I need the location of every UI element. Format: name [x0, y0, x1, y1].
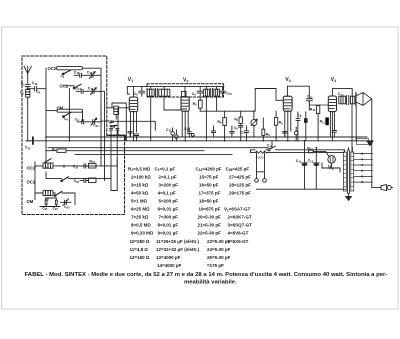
output transformer secondary	[350, 96, 354, 104]
svg-text:12=32+32 μF (elettr.): 12=32+32 μF (elettr.)	[156, 247, 200, 252]
svg-text:17=375 pF: 17=375 pF	[199, 191, 221, 196]
capacitor C22	[55, 198, 57, 207]
svg-text:19=875 pF: 19=875 pF	[199, 207, 221, 212]
wire transformer top	[345, 148, 353, 152]
svg-text:C14=4200 pF: C14=4200 pF	[196, 166, 222, 172]
svg-text:=175 pF: =175 pF	[207, 263, 224, 268]
svg-text:R6: R6	[217, 120, 222, 125]
svg-text:V1=6SA7-GT: V1=6SA7-GT	[224, 207, 251, 213]
capacitor C10	[220, 87, 226, 96]
electrolytic C11	[304, 141, 306, 189]
capacitor C6	[187, 128, 191, 137]
resistor R12	[309, 150, 314, 153]
svg-text:meabilità variabile.: meabilità variabile.	[184, 279, 237, 285]
svg-text:C11: C11	[296, 159, 302, 164]
svg-text:C22: C22	[52, 206, 58, 211]
svg-text:13=4000 pF: 13=4000 pF	[156, 255, 181, 260]
svg-text:OC2: OC2	[27, 165, 36, 170]
svg-text:V3: V3	[285, 77, 290, 83]
svg-text:20=5-30 pF: 20=5-30 pF	[198, 215, 222, 220]
svg-text:12=160 Ω: 12=160 Ω	[130, 255, 150, 260]
resistor R6	[223, 118, 227, 126]
wire detector line	[200, 110, 254, 112]
svg-text:R1=0,5 MΩ: R1=0,5 MΩ	[128, 166, 151, 172]
svg-text:C10: C10	[226, 91, 232, 96]
power transformer core	[348, 150, 350, 194]
switch mains	[268, 149, 270, 151]
tube V1	[129, 97, 137, 112]
tube V2	[181, 97, 189, 111]
svg-text:L6: L6	[64, 117, 68, 122]
taps with arrows	[354, 154, 373, 183]
svg-text:2=6SK7-GT: 2=6SK7-GT	[228, 215, 252, 220]
svg-text:R5: R5	[193, 102, 198, 107]
bus AVC	[48, 147, 268, 149]
svg-text:9=0,01 μF: 9=0,01 μF	[158, 231, 179, 236]
wire IF1 stubs	[151, 87, 181, 141]
coil L1	[26, 90, 30, 98]
svg-text:R10: R10	[310, 107, 316, 112]
switch OC2b	[45, 159, 51, 163]
svg-text:16=50 pF: 16=50 pF	[199, 182, 219, 187]
svg-text:21=5-30 pF: 21=5-30 pF	[198, 223, 222, 228]
svg-text:9=0,33 MΩ: 9=0,33 MΩ	[131, 231, 154, 236]
wire	[99, 91, 105, 110]
resistor R9	[274, 118, 277, 126]
tube V4	[328, 96, 336, 112]
coil L8	[43, 191, 53, 196]
main B+ bus	[46, 136, 367, 138]
caption	[25, 272, 388, 286]
IF1 core	[156, 88, 158, 97]
svg-text:10=250 Ω: 10=250 Ω	[130, 239, 150, 244]
svg-text:OM: OM	[27, 199, 34, 204]
svg-text:11=4,8 Ω: 11=4,8 Ω	[130, 247, 149, 252]
switch OC2a	[64, 70, 71, 74]
svg-text:18=50 pF: 18=50 pF	[199, 199, 219, 204]
capacitor C8b	[296, 112, 300, 141]
resistor R8	[262, 129, 265, 135]
svg-text:27=425 pF: 27=425 pF	[229, 174, 251, 179]
svg-text:R13: R13	[89, 159, 95, 164]
svg-text:C4: C4	[75, 117, 80, 122]
capacitor C2	[28, 87, 46, 91]
lower band-switch row OC2 / coil L4	[43, 163, 53, 168]
svg-text:4=50 kΩ: 4=50 kΩ	[131, 191, 149, 196]
svg-text:C8: C8	[234, 126, 239, 131]
svg-text:22=5-30 pF: 22=5-30 pF	[198, 231, 222, 236]
wire plate V4 loop	[332, 89, 352, 97]
svg-text:6=0,01 μF: 6=0,01 μF	[158, 207, 179, 212]
top line	[127, 86, 224, 88]
svg-text:2=0,1 μF: 2=0,1 μF	[159, 174, 177, 179]
electrolytic C29a	[294, 131, 298, 135]
resistor R11	[325, 117, 328, 125]
svg-text:4=0,1 μF: 4=0,1 μF	[158, 191, 176, 196]
switch OC1b	[62, 177, 69, 181]
wire riser OC rows	[101, 110, 105, 180]
svg-text:OC1: OC1	[60, 83, 69, 88]
svg-text:6=25 MΩ: 6=25 MΩ	[131, 207, 150, 212]
rectifier V5	[328, 156, 336, 164]
wire plate V1	[132, 87, 134, 97]
svg-text:C23: C23	[64, 205, 70, 210]
svg-text:OC1: OC1	[27, 180, 36, 185]
svg-text:L8: L8	[45, 197, 49, 202]
capacitor C25	[134, 134, 138, 141]
potentiometer volume	[251, 120, 257, 126]
capacitor C16	[74, 73, 86, 77]
svg-text:C1=0,1 μF: C1=0,1 μF	[155, 166, 176, 172]
svg-text:L1: L1	[20, 91, 24, 96]
wire selector	[372, 187, 381, 189]
trimmer C24	[88, 118, 100, 125]
capacitor C15 input	[32, 137, 34, 143]
resistor R13	[89, 163, 97, 168]
svg-text:C1: C1	[21, 82, 26, 87]
svg-text:24=5-30 pF: 24=5-30 pF	[207, 247, 231, 252]
svg-text:7=300 pF: 7=300 pF	[159, 215, 179, 220]
capacitor C9	[197, 87, 203, 101]
svg-text:14=4000 pF: 14=4000 pF	[157, 263, 182, 268]
electrolytic C11a	[171, 132, 175, 136]
svg-text:C26=425 pF: C26=425 pF	[226, 166, 250, 172]
switch OC1a	[75, 84, 82, 88]
power transformer secondary	[351, 152, 354, 191]
AVC riser wires	[111, 130, 117, 191]
ground transformer	[348, 194, 350, 197]
wire C30 area	[271, 141, 273, 148]
capacitor C7	[244, 126, 248, 141]
svg-text:5=6X5-GT: 5=6X5-GT	[228, 239, 249, 244]
capacitor C6	[139, 87, 145, 97]
switch OMb	[56, 191, 63, 195]
svg-text:C12: C12	[307, 95, 313, 100]
svg-text:C17: C17	[76, 86, 82, 91]
svg-text:R12: R12	[307, 146, 313, 151]
svg-text:R8: R8	[266, 132, 271, 137]
wire	[98, 74, 102, 76]
wire	[112, 103, 126, 141]
capacitor C3	[128, 131, 132, 137]
IF1 primary coil	[147, 89, 154, 96]
parts list	[128, 166, 252, 268]
wire plug leads	[257, 153, 265, 179]
bus cathode	[75, 154, 232, 156]
wire	[35, 160, 117, 200]
svg-text:5=1 MΩ: 5=1 MΩ	[131, 199, 148, 204]
svg-text:C24: C24	[93, 123, 99, 128]
svg-text:C13: C13	[308, 159, 314, 164]
IF2 secondary coil	[214, 89, 220, 96]
svg-text:C20: C20	[74, 179, 80, 184]
capacitor C20	[80, 178, 89, 182]
svg-text:C21: C21	[42, 206, 48, 211]
oscillator link dashed	[101, 120, 114, 122]
speaker	[355, 93, 357, 105]
resistor R5	[199, 100, 203, 108]
electrolytic C11b	[175, 135, 179, 139]
svg-text:3=6SQ7-GT: 3=6SQ7-GT	[228, 223, 253, 228]
svg-text:2=100 kΩ: 2=100 kΩ	[131, 174, 151, 179]
wire pins V4	[330, 112, 334, 141]
svg-text:C9: C9	[192, 92, 197, 97]
mains plug	[255, 179, 259, 183]
capacitor C19	[80, 164, 89, 168]
electrolytic C28	[304, 118, 308, 123]
resistor R7	[239, 117, 242, 123]
capacitor C13a	[332, 131, 336, 138]
ground	[367, 141, 373, 146]
svg-text:O: O	[63, 164, 66, 168]
oscillator coil L7	[114, 106, 119, 114]
svg-text:Fuso: Fuso	[256, 156, 264, 160]
svg-text:R11: R11	[320, 120, 326, 125]
svg-text:25=5-30 pF: 25=5-30 pF	[207, 255, 231, 260]
junction dots	[45, 110, 317, 148]
wire grid V1	[107, 108, 130, 141]
wire pins V2	[182, 111, 188, 140]
IF1 secondary coil	[159, 89, 170, 96]
wire plate V2	[184, 87, 186, 97]
ground bus	[26, 140, 368, 142]
svg-text:11=25+25 μF (elettr.): 11=25+25 μF (elettr.)	[156, 239, 200, 244]
wire	[45, 68, 47, 163]
wire field coil drop	[352, 100, 372, 188]
wire	[115, 121, 155, 130]
wire	[127, 87, 129, 94]
svg-text:C15: C15	[25, 146, 31, 151]
svg-text:3=15 kΩ: 3=15 kΩ	[131, 182, 149, 187]
IF transformers dashed box	[147, 84, 224, 97]
fuse	[255, 151, 266, 153]
svg-text:4=6V6-GT: 4=6V6-GT	[228, 231, 249, 236]
trimmer C15	[86, 72, 98, 79]
wire AVC to V3	[255, 89, 283, 112]
wire pins V3	[285, 111, 291, 141]
wire	[46, 110, 57, 112]
capacitor C26 top	[110, 129, 119, 131]
wire	[83, 110, 102, 126]
capacitor C8a	[230, 126, 234, 137]
coil L5	[57, 67, 83, 70]
svg-text:3=200 pF: 3=200 pF	[159, 182, 179, 187]
resistor R14	[89, 178, 97, 183]
svg-text:C2: C2	[36, 90, 41, 95]
field coil box	[357, 138, 369, 144]
svg-text:C15: C15	[87, 70, 93, 75]
node A	[27, 88, 28, 89]
svg-text:15=75 pF: 15=75 pF	[199, 174, 219, 179]
tuner shield dashed box	[22, 56, 125, 215]
svg-text:C14: C14	[338, 92, 344, 97]
svg-text:28=125 pF: 28=125 pF	[229, 182, 251, 187]
svg-text:C19: C19	[73, 165, 79, 170]
capacitor C7a	[211, 126, 215, 137]
wire	[83, 68, 102, 126]
svg-text:OC2: OC2	[48, 66, 57, 71]
capacitor C17	[76, 89, 87, 93]
wire grid V4	[309, 101, 328, 105]
grid cap V2	[181, 91, 186, 96]
antenna	[24, 66, 31, 83]
IF2 primary coil	[203, 89, 209, 96]
wire V3 to C12	[287, 86, 309, 99]
capacitor C12	[306, 99, 312, 110]
svg-text:C6: C6	[134, 92, 139, 97]
electrolytic C13	[315, 148, 317, 190]
svg-text:8=0,5 MΩ: 8=0,5 MΩ	[131, 223, 151, 228]
coil L6 bracket	[57, 109, 83, 112]
power transformer primary	[343, 152, 346, 191]
trimmer C23	[61, 199, 72, 206]
svg-text:V1: V1	[128, 77, 133, 83]
capacitor C4	[77, 120, 88, 124]
resistor R10	[316, 106, 319, 114]
svg-text:V2: V2	[183, 77, 188, 83]
capacitor C21	[45, 198, 47, 207]
output transformer primary	[339, 96, 346, 104]
switch OMa	[64, 113, 71, 117]
bus lower power	[257, 188, 346, 190]
voltage selector plug	[381, 185, 387, 191]
IF2 core	[211, 88, 213, 97]
svg-text:OM: OM	[57, 106, 64, 111]
svg-text:8=0,01 μF: 8=0,01 μF	[158, 223, 179, 228]
svg-text:V4: V4	[331, 77, 336, 83]
svg-text:FABEL - Mod. SINTEX - Medie e: FABEL - Mod. SINTEX - Medie e due corte,…	[25, 272, 388, 278]
capacitor C8	[239, 125, 243, 140]
wire pins V1	[131, 112, 137, 141]
tube V3	[283, 96, 292, 111]
capacitor C1	[25, 84, 30, 89]
svg-text:V5: V5	[328, 165, 333, 171]
svg-text:R9: R9	[279, 121, 284, 126]
svg-text:5=200 pF: 5=200 pF	[159, 199, 179, 204]
output transformer core	[347, 95, 349, 104]
svg-text:C8: C8	[297, 113, 302, 118]
wire plate V3	[286, 86, 288, 96]
svg-text:7=25 kΩ: 7=25 kΩ	[131, 215, 149, 220]
wire	[69, 172, 112, 178]
wire IF2 stubs	[206, 87, 216, 141]
svg-text:C18: C18	[88, 86, 94, 91]
resistor R1	[57, 149, 66, 152]
wire	[68, 89, 70, 141]
svg-text:C16: C16	[74, 70, 80, 75]
svg-text:29=175 pF: 29=175 pF	[229, 191, 251, 196]
svg-text:C16: C16	[32, 81, 38, 86]
electrolytic C6b	[191, 133, 194, 136]
capacitor C28a	[283, 131, 287, 137]
wire mains pair	[251, 150, 345, 153]
trimmer C18	[87, 88, 99, 95]
svg-text:C11: C11	[166, 128, 172, 133]
svg-text:R7: R7	[234, 118, 239, 123]
wire	[27, 97, 29, 141]
wire	[40, 198, 60, 207]
